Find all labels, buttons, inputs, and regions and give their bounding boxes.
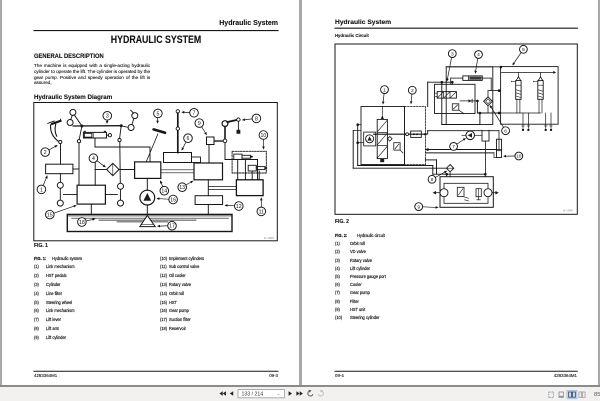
- wire filter branch: [95, 162, 106, 185]
- svg-text:3: 3: [106, 114, 109, 120]
- balloon 11 (FIG.1): [257, 197, 266, 215]
- svg-text:3: 3: [451, 51, 454, 57]
- balloon 17 (FIG.1): [157, 221, 176, 230]
- wire gear pump to suction filter: [146, 205, 148, 216]
- VD valve element: [411, 131, 422, 137]
- sub control valve box (FIG.1 item 11): [236, 180, 263, 196]
- orbit roll gerotor pump: [364, 132, 376, 146]
- steering return wire: [426, 160, 437, 174]
- balloon 14 (FIG.1): [160, 180, 169, 195]
- filter (FIG.2 item 8): [446, 165, 453, 177]
- HST internal valves: [457, 187, 481, 201]
- balloon 6 (FIG.1): [182, 134, 193, 151]
- svg-text:1: 1: [40, 187, 43, 193]
- bottom loop wire to filter: [353, 167, 446, 169]
- balloon 16 (FIG.1): [156, 195, 177, 204]
- svg-text:6: 6: [187, 136, 190, 142]
- svg-text:18: 18: [79, 220, 85, 226]
- reservoir (FIG.1 item 18): [67, 214, 232, 231]
- FIG.2 border frame: [335, 44, 577, 214]
- fig1 plate number: [264, 236, 274, 240]
- page2 footer rule: [335, 370, 577, 372]
- wire box1 right connector: [73, 168, 79, 170]
- svg-text:7: 7: [193, 111, 196, 117]
- orbit roll spool valve: [377, 107, 387, 163]
- VD valve dashed box (FIG.2 item 2): [405, 107, 426, 165]
- top link wire: [446, 66, 500, 68]
- balloon 1 (FIG.2): [381, 86, 389, 105]
- balloon 5 (FIG.1): [154, 109, 163, 124]
- balloon 4 (FIG.2): [474, 51, 482, 74]
- orbit roll relief valve: [394, 143, 403, 153]
- oil cooler box (FIG.1 item 12): [195, 196, 223, 205]
- wires implement cylinders to sub control valve: [238, 159, 260, 179]
- wire bundle right of rotary: [428, 81, 501, 125]
- balloon 9 (FIG.2): [415, 203, 439, 211]
- wire orbit roll to gear pump: [146, 178, 148, 190]
- balloon 12 (FIG.1): [224, 202, 243, 211]
- svg-text:1: 1: [383, 87, 386, 93]
- svg-text:14: 14: [161, 189, 167, 195]
- orbit roll check valve: [388, 137, 393, 142]
- svg-text:2: 2: [44, 150, 47, 156]
- svg-text:10: 10: [261, 133, 267, 139]
- wires orbit to rotary: [161, 170, 194, 173]
- wire pedals to box1: [60, 144, 62, 165]
- svg-text:D-1049: D-1049: [563, 209, 573, 213]
- page1 footer rule: [34, 370, 278, 372]
- svg-text:5: 5: [522, 47, 525, 53]
- svg-text:-: -: [278, 392, 280, 398]
- wire lift arm to sub control valve: [225, 143, 258, 180]
- gear pump (FIG.2 item 7): [462, 131, 482, 140]
- HST linkage circles left: [57, 182, 77, 206]
- pressure gauge port block (FIG.2 item 5): [500, 66, 558, 125]
- balloon 18 (FIG.1): [78, 218, 96, 227]
- wire HST to reservoir: [90, 204, 92, 214]
- balloon 1 (FIG.1): [37, 175, 47, 193]
- svg-text:8: 8: [255, 116, 258, 122]
- rotary valve box (FIG.1 item 13): [194, 163, 223, 180]
- orbit roll left feedback wires: [353, 123, 364, 168]
- svg-text:85: 85: [594, 392, 600, 398]
- svg-text:8: 8: [431, 177, 434, 183]
- svg-text:5: 5: [156, 111, 159, 117]
- HST linkage circles right: [105, 183, 123, 206]
- lift cylinder (FIG.1 item 9): [207, 137, 224, 145]
- linkage drop left: [77, 126, 82, 143]
- svg-text:12: 12: [236, 204, 242, 210]
- rotary relief valve: [452, 104, 463, 114]
- svg-text:16: 16: [170, 197, 176, 203]
- balloon 7 (FIG.2): [450, 138, 466, 150]
- cooler (FIG.2 item 6): [484, 89, 501, 113]
- orbit roll unit box U1 (FIG.2 item 1): [361, 107, 405, 165]
- suction filter (FIG.1 item 17): [140, 216, 155, 227]
- HST box (FIG.1 item 15): [77, 185, 105, 204]
- balloon 8 (FIG.1): [242, 114, 261, 123]
- page2 header rule: [335, 27, 577, 29]
- wire cooler to reservoir: [207, 205, 209, 215]
- balloon 15 (FIG.1): [46, 205, 77, 219]
- balloon 3 (FIG.1): [103, 112, 112, 125]
- page1 header rule: [34, 30, 278, 32]
- wire left drop to HST: [78, 143, 80, 185]
- balloon 10 (FIG.2): [503, 152, 523, 160]
- svg-text:9: 9: [198, 121, 201, 127]
- balloon 9 (FIG.1): [195, 119, 207, 136]
- link mechanism box (FIG.1 item 6): [164, 153, 201, 163]
- link mechanism box (FIG.1 item 1): [46, 164, 73, 174]
- HST pump circle left: [440, 189, 448, 197]
- svg-text:4: 4: [477, 52, 480, 58]
- svg-text:4: 4: [92, 156, 95, 162]
- rotary valve inner box: [435, 84, 476, 113]
- balloon 3 (FIG.2): [446, 50, 456, 82]
- steering wheel (FIG.1 item 5): [146, 129, 165, 162]
- rotary valve outer box (FIG.2 item 3): [446, 67, 493, 125]
- svg-text:7: 7: [452, 144, 455, 150]
- svg-text:17: 17: [169, 224, 175, 230]
- wires rotary valve to sub control valve: [208, 180, 236, 196]
- svg-text:11: 11: [259, 209, 264, 215]
- svg-text:2: 2: [411, 88, 414, 94]
- link bar: [73, 124, 123, 127]
- svg-text:6: 6: [504, 128, 507, 134]
- gauge block collector wire: [499, 112, 540, 114]
- linkage drop right: [118, 126, 121, 142]
- svg-text:15: 15: [47, 212, 53, 218]
- gauge cartridge valve V1: [511, 72, 521, 113]
- svg-text:10: 10: [516, 154, 522, 160]
- lift arm (FIG.1 item 8): [222, 118, 240, 143]
- rotary valve spool: [436, 92, 457, 99]
- balloon 5 (FIG.2): [512, 45, 527, 65]
- steering cylinder (FIG.2 item 10): [497, 131, 502, 158]
- linkage joint circles right: [123, 110, 138, 130]
- HST pedals (FIG.1 item 2): [48, 119, 62, 143]
- FIG.1 border frame: [34, 103, 277, 241]
- gauge cartridge valve V2: [533, 72, 543, 113]
- fig2 plate number: [563, 209, 573, 213]
- svg-text:9: 9: [417, 204, 420, 210]
- wire right drop down: [119, 142, 122, 184]
- gauge block drain ports: [522, 113, 553, 131]
- steering wires from orbit: [426, 148, 497, 157]
- wire cylinder to junction: [95, 138, 150, 162]
- line filter (FIG.1 item 4): [107, 163, 119, 175]
- linkage joint circles left: [67, 109, 82, 125]
- balloon 2 (FIG.2): [408, 86, 416, 104]
- gear pump (FIG.1 item 16): [140, 190, 155, 205]
- balloon 2 (FIG.1): [41, 145, 58, 156]
- svg-text:133 / 214: 133 / 214: [242, 392, 264, 398]
- balloon 4 (FIG.1): [89, 154, 106, 168]
- balloon 7 (FIG.1): [181, 109, 198, 118]
- HST unit box (FIG.2 item 9): [440, 177, 493, 208]
- gauge block top wire: [502, 71, 557, 74]
- wire lift cylinder to rotary valve: [208, 145, 210, 164]
- orbit roll main pressure line: [374, 133, 426, 136]
- check valve to cooler: [460, 99, 477, 102]
- junction dot orbit outlet: [424, 133, 427, 136]
- wire box1 to lower linkage: [59, 174, 61, 183]
- balloon 6 (FIG.2): [490, 105, 510, 135]
- HST shaft arrows: [433, 191, 499, 195]
- svg-text:D-1008: D-1008: [264, 236, 274, 240]
- balloon 8 (FIG.2): [428, 171, 447, 184]
- balloon 13 (FIG.1): [178, 181, 194, 192]
- HST motor circle right: [484, 189, 492, 197]
- steering supply wire top: [428, 131, 499, 135]
- lift lever (FIG.1 item 7): [176, 110, 179, 153]
- bottom loop wire to HST return: [358, 166, 487, 177]
- cylinder (FIG.1 item 3): [83, 131, 111, 138]
- lift cylinder (FIG.2 item 4): [451, 76, 492, 91]
- svg-text:13: 13: [179, 185, 185, 191]
- implement cylinders dashed box (FIG.1 item 10): [232, 151, 266, 173]
- reservoir tank symbol: [482, 130, 489, 174]
- balloon 10 (FIG.1): [259, 131, 268, 150]
- wire filter to orbit roll: [119, 169, 135, 171]
- orbit roll box (FIG.1 item 14): [135, 162, 161, 179]
